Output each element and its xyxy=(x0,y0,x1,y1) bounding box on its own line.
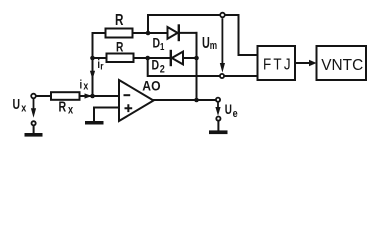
svg-text:1: 1 xyxy=(160,41,164,52)
svg-text:VNTC: VNTC xyxy=(321,57,363,74)
wire non-inverting input to ground xyxy=(94,108,119,121)
svg-text:r: r xyxy=(100,61,104,73)
wire Ue lower terminal to ground xyxy=(217,121,219,130)
ground op-amp plus input xyxy=(85,121,104,125)
wire inverting input node to op-amp xyxy=(93,95,120,97)
arrow FTJ to VNTC xyxy=(309,60,317,66)
arrow ix current xyxy=(85,93,93,98)
label Ue xyxy=(225,101,238,120)
wire D1 cathode to right vertical xyxy=(179,32,197,34)
wire R2 left xyxy=(93,57,107,59)
svg-text:AO: AO xyxy=(142,78,160,94)
terminal Ue top xyxy=(216,98,220,102)
label Rx value xyxy=(59,99,74,117)
label D1 xyxy=(153,35,165,52)
wire D2 anode to right vertical xyxy=(183,57,197,59)
wire FTJ output to VNTC xyxy=(295,62,310,64)
arrow Ux voltage xyxy=(31,99,36,118)
op-amp minus input sign xyxy=(124,94,131,96)
wire left feedback vertical xyxy=(92,33,94,96)
ground Ue xyxy=(209,130,228,134)
ground Ux xyxy=(25,133,43,137)
svg-text:FTJ: FTJ xyxy=(263,57,293,74)
wire R1/D1 node up to top rail xyxy=(147,15,149,33)
svg-text:x: x xyxy=(21,103,26,115)
wire Ux lower terminal to ground xyxy=(33,126,35,133)
svg-text:U: U xyxy=(13,96,21,112)
junction D2/right vertical xyxy=(194,56,199,61)
label D2 xyxy=(152,57,166,76)
junction R2/D2 xyxy=(145,56,150,61)
wire Ux terminal to Rx xyxy=(37,95,52,97)
terminal Um bottom xyxy=(220,74,224,78)
wire op-amp output rail xyxy=(154,99,216,101)
terminal Ue bottom xyxy=(216,117,220,121)
svg-text:D: D xyxy=(152,57,160,73)
junction output rail xyxy=(194,98,199,103)
junction R1/D1 xyxy=(146,31,151,36)
label Um xyxy=(202,34,217,52)
svg-text:R: R xyxy=(116,39,124,55)
svg-text:U: U xyxy=(225,101,232,117)
resistor Rx xyxy=(51,92,80,100)
terminal Ux bottom xyxy=(31,121,35,125)
terminal Um top xyxy=(220,13,225,18)
op-amp AO xyxy=(119,80,154,121)
wire Rx to summing node xyxy=(80,95,93,97)
svg-text:i: i xyxy=(80,78,83,91)
wire right vertical diodes to output xyxy=(196,33,198,100)
svg-text:U: U xyxy=(202,34,210,51)
arrow Ue voltage xyxy=(215,103,220,116)
diode D1 xyxy=(168,26,179,41)
block FTJ xyxy=(258,46,296,80)
wire R1 right to D1 anode xyxy=(133,32,168,34)
svg-text:2: 2 xyxy=(160,64,165,76)
svg-text:x: x xyxy=(83,81,88,93)
op-amp plus input sign xyxy=(125,104,133,112)
wire R2 right to D2 cathode xyxy=(134,57,170,59)
terminal Ux top xyxy=(31,94,36,99)
label Ux xyxy=(13,96,27,115)
arrow Um voltage xyxy=(220,18,225,72)
junction summing node xyxy=(90,94,95,99)
label ix current xyxy=(80,78,89,92)
svg-text:R: R xyxy=(115,10,123,28)
wire R2/D2 node drop to lower rail into FTJ xyxy=(148,58,258,76)
label ir current xyxy=(97,58,103,73)
diode D2 xyxy=(171,51,183,65)
wire R1 left xyxy=(93,32,106,34)
wire top rail descent to FTJ xyxy=(239,15,258,55)
resistor R2 xyxy=(107,54,134,63)
svg-text:m: m xyxy=(210,40,218,52)
svg-text:D: D xyxy=(153,35,161,51)
svg-text:e: e xyxy=(233,108,238,120)
svg-text:R: R xyxy=(59,99,67,115)
wire top rail xyxy=(148,14,239,16)
svg-text:x: x xyxy=(68,105,73,117)
block VNTC xyxy=(317,46,367,80)
resistor R1 xyxy=(106,29,133,38)
arrow ir current xyxy=(90,71,95,80)
junction R2 left xyxy=(90,56,95,61)
